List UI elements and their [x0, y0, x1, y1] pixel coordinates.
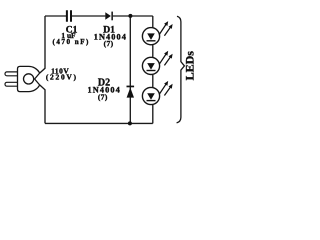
- wire left bottom vertical: [40, 85, 45, 123]
- wire LED1-LED2: [152, 45, 154, 58]
- wire LED2-LED3: [152, 75, 154, 88]
- diode D2: [127, 86, 135, 98]
- wire top middle (C1 to D1): [72, 15, 106, 17]
- wire left top vertical: [40, 16, 45, 73]
- capacitor C1 plates: [67, 10, 71, 22]
- svg-text:(7): (7): [104, 39, 114, 48]
- svg-text:LEDs: LEDs: [182, 51, 196, 81]
- plug face circle: [24, 74, 34, 84]
- LED 3: [142, 81, 172, 105]
- svg-text:(7): (7): [98, 92, 108, 101]
- wire top-left horizontal: [45, 15, 66, 17]
- LED 1: [142, 21, 172, 45]
- node junction bottom: [128, 121, 132, 125]
- diode D1: [105, 12, 113, 21]
- plug prong lower: [5, 82, 20, 86]
- plug body: [18, 66, 40, 91]
- node junction top: [128, 14, 132, 18]
- svg-text:(220V): (220V): [46, 72, 78, 81]
- wire top right (D1 to corner): [113, 15, 153, 17]
- wire bottom horizontal: [45, 122, 153, 124]
- plug prong upper: [5, 72, 20, 76]
- wire D2 branch vertical: [129, 16, 131, 123]
- svg-text:(470 nF): (470 nF): [52, 38, 89, 46]
- LED 2: [142, 51, 172, 75]
- wire right vertical to LED1: [152, 16, 154, 28]
- wire LED3 to bottom: [152, 104, 154, 123]
- brace for LEDs: [177, 16, 185, 123]
